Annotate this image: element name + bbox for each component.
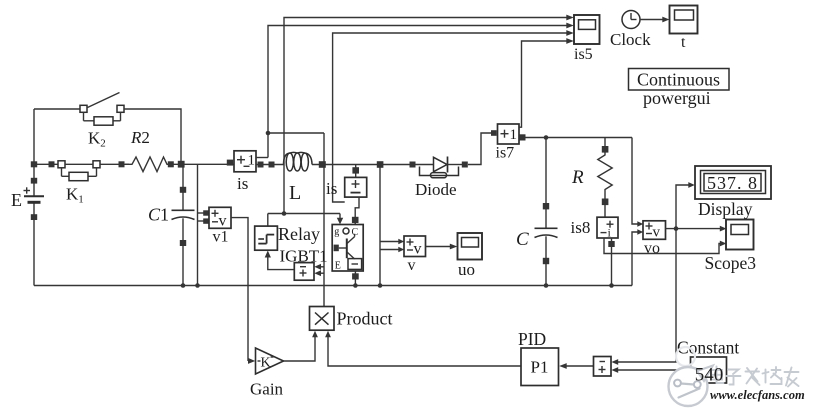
svg-text:g: g (334, 227, 339, 238)
scope t (670, 6, 698, 34)
display block 537.8 (695, 166, 771, 199)
svg-text:E: E (335, 261, 341, 272)
transistor IGBT block (332, 225, 363, 272)
bottom bus wire (34, 283, 632, 288)
wire junction to product vertical (268, 132, 324, 134)
wire vo output to Scope3 (666, 226, 727, 232)
wire gate line relay to IGBT (268, 211, 343, 224)
sum block under relay (294, 263, 314, 281)
wire top rail corner down to vo plus (632, 138, 643, 227)
svg-text:E: E (11, 190, 22, 210)
wire K2 to node (124, 109, 181, 164)
current measurement is7 (498, 124, 520, 144)
wire P1 output to product input 2 (325, 331, 521, 366)
inductor L (284, 152, 313, 171)
gain block (256, 348, 284, 374)
wire diode to is7 (468, 133, 492, 165)
watermark logo elecfans (669, 347, 714, 406)
wire clock to t (640, 17, 669, 23)
clock block (622, 11, 640, 29)
wire gain output to product input 1 (284, 331, 318, 361)
svg-text:540: 540 (695, 365, 724, 386)
svg-text:is5: is5 (574, 46, 593, 63)
scope Scope3 (726, 220, 754, 250)
svg-text:PID: PID (518, 329, 546, 349)
svg-text:C: C (516, 229, 529, 250)
resistor R2 (125, 157, 172, 172)
svg-text:R2: R2 (130, 128, 150, 147)
svg-text:R: R (571, 167, 584, 188)
svg-text:is7: is7 (496, 145, 515, 162)
svg-text:Product: Product (337, 309, 393, 329)
svg-text:is8: is8 (571, 218, 591, 237)
svg-text:Gain: Gain (250, 380, 284, 399)
svg-text:v: v (219, 213, 227, 230)
powergui block (629, 69, 730, 91)
svg-text:Scope3: Scope3 (705, 253, 757, 273)
svg-text:P1: P1 (531, 358, 549, 377)
svg-text:is: is (326, 179, 337, 198)
wire node to v1 taps (198, 164, 209, 285)
resistor R vertical (598, 138, 612, 218)
svg-text:uo: uo (458, 260, 475, 279)
current measurement is1 (345, 165, 367, 198)
sum block sum2 (594, 357, 612, 377)
watermark chinese text (711, 367, 799, 387)
diode D1 (416, 157, 468, 178)
svg-text:1: 1 (510, 127, 518, 143)
wire top branch to K2 (34, 108, 80, 110)
wire taps into sum inputs (314, 264, 324, 276)
wire is7 output to top rail (519, 134, 632, 140)
wire L to diode section (312, 164, 416, 166)
wire measurement stub of is up to junction (256, 131, 270, 158)
svg-text:Display: Display (698, 199, 753, 219)
wire sum output to relay input (265, 251, 295, 270)
wire K1 to R2 (100, 163, 129, 165)
wire signal line 2 to scope is5 (268, 23, 574, 133)
svg-text:v1: v1 (213, 229, 229, 246)
voltage measurement v taps (380, 165, 404, 286)
svg-text:is: is (237, 174, 248, 193)
wire IGBT emitter to bus (352, 271, 359, 288)
voltage measurement v1 (209, 207, 231, 229)
svg-text:K: K (261, 356, 271, 371)
wire sum2 to P1 (559, 363, 593, 369)
svg-text:v: v (408, 257, 416, 274)
wire feedback down to sum2 (611, 229, 676, 365)
breaker K2 (open switch) (80, 93, 124, 126)
svg-text:v: v (414, 241, 422, 258)
svg-text:Continuous: Continuous (637, 70, 720, 90)
battery E symbol (24, 109, 45, 286)
svg-text:v: v (653, 225, 661, 241)
relay block (255, 214, 278, 251)
svg-text:www.elecfans.com: www.elecfans.com (710, 388, 805, 402)
svg-text:Diode: Diode (415, 180, 457, 199)
wire signal line 3 to scope is5 (333, 30, 574, 202)
wire product vertical (323, 133, 325, 307)
voltage measurement v (404, 236, 426, 258)
wire feedback up to Display (676, 182, 695, 229)
wire main line E to K1 (34, 163, 58, 165)
controller block P1 (521, 348, 559, 386)
product block (310, 307, 335, 331)
wire is1 bottom to IGBT collector (352, 197, 359, 224)
scope uo (458, 233, 483, 260)
svg-text:L: L (289, 182, 301, 204)
current measurement is (234, 151, 256, 172)
wire v1 output down to Gain (231, 218, 248, 361)
wire v1 signal arrow into gain (248, 358, 255, 364)
wire bus up to vo minus (632, 229, 643, 285)
scope is5 (574, 15, 600, 44)
wire signal line 1 (gate) to scope is5 (284, 15, 574, 214)
svg-text:Relay: Relay (278, 224, 320, 244)
svg-text:Clock: Clock (610, 30, 651, 49)
current measurement is8 (597, 217, 618, 239)
capacitor C vertical (535, 138, 558, 288)
breaker K1 (closed) (58, 161, 100, 181)
svg-text:powergui: powergui (643, 88, 711, 108)
wire is8 to bus (608, 238, 614, 288)
wire v to uo (426, 244, 458, 250)
svg-text:t: t (681, 34, 686, 51)
wire R2 to node, junction pads (170, 163, 234, 165)
voltage measurement vo (643, 221, 666, 241)
wire is output to L (256, 164, 284, 166)
svg-text:C1: C1 (148, 205, 169, 225)
wire is8 signal to Scope3 input 2 (604, 238, 720, 254)
wire signal line 4 is7 to scope is5 (519, 38, 574, 127)
svg-text:vo: vo (644, 240, 660, 257)
constant block 540 (691, 357, 727, 383)
svg-text:537. 8: 537. 8 (707, 173, 758, 193)
capacitor C1 (172, 164, 195, 285)
wire constant to sum2 (611, 367, 690, 373)
